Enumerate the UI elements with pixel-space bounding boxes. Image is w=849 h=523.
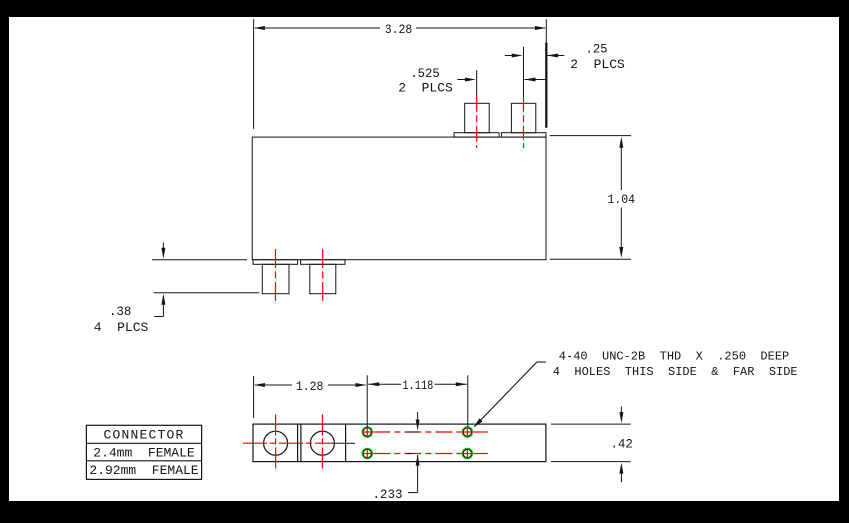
svg-text:2.4mm FEMALE: 2.4mm FEMALE: [93, 445, 195, 460]
svg-text:.42: .42: [610, 436, 633, 451]
svg-text:1.04: 1.04: [608, 192, 636, 207]
svg-text:1.118: 1.118: [402, 378, 433, 393]
svg-text:.38: .38: [109, 304, 132, 319]
svg-text:2.92mm FEMALE: 2.92mm FEMALE: [89, 463, 198, 478]
svg-text:.233: .233: [373, 487, 403, 502]
svg-text:.25: .25: [586, 41, 608, 56]
svg-text:2 PLCS: 2 PLCS: [570, 57, 625, 72]
svg-text:3.28: 3.28: [385, 22, 413, 37]
svg-text:1.28: 1.28: [296, 379, 324, 394]
svg-text:4 HOLES THIS SIDE & FAR: 4 HOLES THIS SIDE & FAR SIDE: [553, 365, 798, 379]
svg-text:4 PLCS: 4 PLCS: [94, 320, 149, 335]
svg-text:4-40 UNC-2B THD X .250 DE: 4-40 UNC-2B THD X .250 DEEP: [559, 350, 789, 364]
svg-text:2 PLCS: 2 PLCS: [398, 81, 453, 96]
svg-text:CONNECTOR: CONNECTOR: [103, 428, 184, 443]
svg-text:.525: .525: [410, 66, 440, 81]
